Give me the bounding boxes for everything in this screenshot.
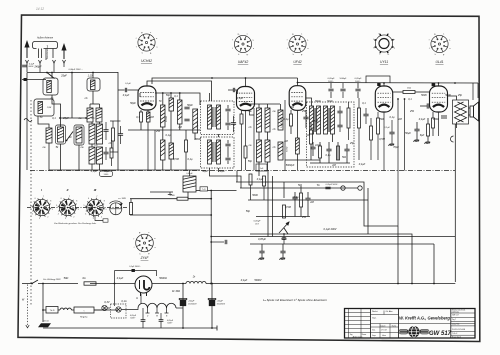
thermal resistor box xyxy=(46,307,58,314)
wire tube cathode drops to rail xyxy=(383,112,385,171)
coil box L2 xyxy=(87,78,100,91)
svg-text:5000: 5000 xyxy=(195,138,201,141)
AVC RC pair left of tube A xyxy=(112,128,115,141)
UCH42 cathode resistors xyxy=(140,112,143,122)
connector arc on return xyxy=(451,136,454,142)
svg-text:0,1µF 500V~: 0,1µF 500V~ xyxy=(129,266,141,268)
tube socket view UL41 xyxy=(431,35,448,52)
coil La2 tuned in box xyxy=(56,125,66,144)
svg-text:6A: 6A xyxy=(82,277,85,280)
svg-text:50pF: 50pF xyxy=(187,104,193,107)
B+ stub capacitor xyxy=(211,241,224,243)
svg-text:g₁: g₁ xyxy=(301,54,303,56)
svg-text:5: 5 xyxy=(56,205,57,207)
svg-text:s: s xyxy=(148,232,149,234)
svg-text:240pF: 240pF xyxy=(33,66,42,69)
IF-II primary coil xyxy=(208,140,212,164)
svg-text:0,1µF: 0,1µF xyxy=(257,178,264,181)
svg-text:500V: 500V xyxy=(281,238,287,241)
UAF42b screen resistor xyxy=(244,146,247,158)
svg-text:g₁: g₁ xyxy=(387,54,389,56)
svg-text:0,1µF: 0,1µF xyxy=(125,83,131,85)
svg-text:0,1µF: 0,1µF xyxy=(384,127,390,129)
mains fuse xyxy=(84,282,96,285)
tuning knob small xyxy=(110,201,123,215)
svg-text:500V~: 500V~ xyxy=(328,81,335,83)
svg-text:5000pF: 5000pF xyxy=(286,164,295,167)
right of IF: decoupling xyxy=(358,108,361,128)
wire oscillator rails xyxy=(128,129,200,131)
svg-text:GW 517: GW 517 xyxy=(452,315,459,317)
svg-text:g₂: g₂ xyxy=(434,33,436,35)
svg-text:150/200V: 150/200V xyxy=(188,304,197,306)
svg-text:5000pF: 5000pF xyxy=(340,78,348,80)
svg-text:Name: Name xyxy=(362,334,367,336)
svg-text:Änderungen: Änderungen xyxy=(353,335,363,338)
svg-text:25p: 25p xyxy=(457,94,463,97)
title block divider 3 xyxy=(450,309,452,339)
svg-text:4: 4 xyxy=(58,214,59,216)
svg-text:Gepr.: Gepr. xyxy=(372,318,377,320)
svg-text:25k: 25k xyxy=(301,110,307,113)
UL41 cathode resistor xyxy=(432,118,435,128)
wire power loop left vertical xyxy=(42,284,44,323)
title block outer box xyxy=(345,309,476,339)
wire antenna stems xyxy=(38,49,40,59)
svg-text:0,3: 0,3 xyxy=(136,116,140,119)
svg-text:2: 2 xyxy=(47,216,48,218)
rectifier tube UY11 xyxy=(375,86,392,112)
svg-text:II: II xyxy=(67,188,69,192)
wire AF section verticals xyxy=(267,170,269,237)
wire ballast to heater row xyxy=(140,294,142,304)
svg-text:0,05µF: 0,05µF xyxy=(355,78,363,80)
svg-text:0,1: 0,1 xyxy=(362,102,366,105)
wire B+ vertical to filter caps xyxy=(210,191,212,284)
svg-text:a₁: a₁ xyxy=(307,39,309,41)
svg-text:Gepr.: Gepr. xyxy=(372,334,377,337)
svg-text:0,1µF: 0,1µF xyxy=(237,97,244,100)
wire heater chain left xyxy=(43,309,46,311)
mains switch xyxy=(22,283,32,285)
switch III link wire xyxy=(95,216,103,221)
svg-text:s: s xyxy=(443,33,444,35)
svg-text:Regelw.: Regelw. xyxy=(80,317,88,319)
wire UAF42 top lead xyxy=(297,78,299,86)
svg-text:Außen-Antenne: Außen-Antenne xyxy=(36,37,54,40)
svg-text:g₂: g₂ xyxy=(139,232,141,234)
svg-text:UY11: UY11 xyxy=(380,60,388,64)
svg-text:24-51-57-006: 24-51-57-006 xyxy=(452,329,466,331)
UL41 bypass cap xyxy=(441,116,447,118)
svg-text:0,1µF: 0,1µF xyxy=(91,170,98,173)
svg-text:Harn: Harn xyxy=(382,334,386,337)
IF-III primary core lines xyxy=(314,108,315,132)
box T+R xyxy=(200,187,208,191)
svg-text:25pF: 25pF xyxy=(60,75,67,78)
ballast tube U xyxy=(135,276,152,296)
switch mechanical dotted link xyxy=(27,285,29,327)
UL41 top cap blob xyxy=(432,83,436,86)
svg-text:ca. 1MΩ: ca. 1MΩ xyxy=(118,198,126,200)
tube socket view UF42 xyxy=(289,35,306,52)
svg-text:50µF: 50µF xyxy=(405,132,411,135)
svg-text:0,5M: 0,5M xyxy=(285,206,291,209)
svg-text:UAF42: UAF42 xyxy=(238,60,249,64)
svg-text:0,5M: 0,5M xyxy=(312,120,318,123)
svg-text:17.9.47: 17.9.47 xyxy=(381,330,387,332)
wire UCH42 anode to top bus xyxy=(147,81,212,101)
wire dropper links xyxy=(187,192,189,199)
value labels middle section xyxy=(237,97,367,167)
svg-text:50pF: 50pF xyxy=(315,100,321,103)
wire tuning gang link xyxy=(60,117,86,119)
heater bump taps xyxy=(146,308,169,313)
svg-text:4: 4 xyxy=(85,214,86,216)
svg-text:6: 6 xyxy=(88,198,89,200)
coil Lb2 xyxy=(97,147,103,164)
svg-text:0,1µF: 0,1µF xyxy=(197,122,199,128)
terminal chevrons xyxy=(26,60,66,63)
oscillator coil tall xyxy=(193,109,198,133)
wire heater row to electrolytic rail xyxy=(176,307,183,309)
UL41 grid coupling cap xyxy=(427,103,429,108)
electrolytic cap blob a xyxy=(182,284,184,329)
capacitor to ground b xyxy=(280,251,285,253)
wire output return vertical xyxy=(454,124,456,282)
svg-text:25k: 25k xyxy=(301,216,307,219)
switch lever a xyxy=(67,132,74,141)
wire chevron drops xyxy=(39,63,41,73)
svg-text:1: 1 xyxy=(78,209,79,211)
svg-text:1: 1 xyxy=(106,209,107,211)
svg-text:Dr: Dr xyxy=(193,276,196,279)
coil La5 lower xyxy=(97,124,103,144)
junction dots left xyxy=(85,117,87,119)
svg-text:Werkst.: Werkst. xyxy=(372,310,379,313)
output transformer xyxy=(453,100,469,124)
IF-III trim caps xyxy=(337,111,342,113)
title block right cells xyxy=(451,313,475,335)
svg-text:Lₐ Spule mit Eisenkern Lᵇ S: Lₐ Spule mit Eisenkern Lᵇ Spule ohne Eis… xyxy=(263,298,327,302)
oscillator padder caps xyxy=(184,107,189,109)
svg-text:25k: 25k xyxy=(409,110,415,113)
svg-text:U: U xyxy=(136,297,138,300)
svg-text:Zwischensockel: Zwischensockel xyxy=(47,44,49,59)
svg-text:Name: Name xyxy=(392,325,397,327)
antenna arrow left xyxy=(25,42,29,59)
tube socket view UAF42 xyxy=(234,35,251,52)
wire lamp feed vertical xyxy=(114,284,116,307)
svg-text:10pF: 10pF xyxy=(315,144,321,147)
IF-I secondary coil xyxy=(217,105,221,129)
svg-text:Dr 30Ω: Dr 30Ω xyxy=(172,290,180,293)
trim caps right column xyxy=(103,130,108,132)
svg-text:0,1µF 200V: 0,1µF 200V xyxy=(324,228,337,231)
svg-text:1: 1 xyxy=(52,209,53,211)
svg-text:500V~: 500V~ xyxy=(355,81,362,83)
svg-text:UCH42: UCH42 xyxy=(141,59,152,63)
pickup jack TA2 xyxy=(358,186,362,190)
UAF42b grid cap xyxy=(233,88,234,92)
wire grid line down xyxy=(117,90,119,170)
svg-text:4: 4 xyxy=(32,214,33,216)
AF coupling caps cluster xyxy=(292,197,297,199)
svg-text:0,5M: 0,5M xyxy=(173,158,179,161)
svg-text:0,1A: 0,1A xyxy=(121,300,126,303)
svg-text:a₁: a₁ xyxy=(156,38,158,40)
svg-text:0,05µF 500V~: 0,05µF 500V~ xyxy=(326,184,339,186)
wire osc mid vertical xyxy=(154,130,156,170)
svg-text:GW 517: GW 517 xyxy=(429,331,452,337)
wire outer top bus xyxy=(152,78,298,84)
svg-text:0,1µ: 0,1µ xyxy=(294,196,299,199)
svg-text:90pF: 90pF xyxy=(104,170,110,173)
chassis ground bottom left xyxy=(38,323,51,327)
ground tap left xyxy=(150,191,173,193)
svg-text:0,1µ: 0,1µ xyxy=(166,134,171,137)
wire UAF42b top lead xyxy=(245,78,247,87)
svg-text:g₂: g₂ xyxy=(141,32,143,34)
svg-text:2: 2 xyxy=(73,216,74,218)
svg-text:g₁: g₁ xyxy=(246,54,248,56)
svg-text:+50µF: +50µF xyxy=(188,301,195,303)
svg-text:Zul. Abw.: Zul. Abw. xyxy=(386,310,394,313)
svg-text:6: 6 xyxy=(61,198,62,200)
wire left vertical down xyxy=(26,73,28,171)
vertical labels between tubes xyxy=(166,116,289,152)
tube socket view ZY4F xyxy=(136,234,154,252)
svg-text:W. Krefft A.G., Gevelsberg: W. Krefft A.G., Gevelsberg xyxy=(399,316,450,321)
svg-text:5: 5 xyxy=(30,205,31,207)
svg-text:50pF: 50pF xyxy=(327,100,333,103)
heater chain bump row xyxy=(138,303,176,308)
svg-text:Lieferung: Lieferung xyxy=(452,312,459,314)
IF transformer I dotted can xyxy=(201,101,235,135)
tube UAF42 envelope xyxy=(237,87,255,111)
svg-text:50 kΩ: 50 kΩ xyxy=(287,146,289,152)
svg-text:UL41: UL41 xyxy=(435,60,443,64)
IF-II trim caps xyxy=(225,144,230,146)
svg-text:g₁: g₁ xyxy=(148,253,150,255)
wire left section joins xyxy=(51,72,53,78)
wire top RF bus xyxy=(27,72,118,74)
svg-text:s: s xyxy=(247,33,248,35)
wire HT top bus right xyxy=(298,82,479,85)
coil La1 with core xyxy=(46,128,52,143)
coil La5 upper xyxy=(96,108,102,122)
svg-text:50p: 50p xyxy=(246,210,251,213)
svg-text:50pF: 50pF xyxy=(130,102,136,105)
svg-text:0,5M: 0,5M xyxy=(379,138,385,141)
capacitor 0,1uF 600V xyxy=(22,65,27,67)
switch contact mid xyxy=(284,228,288,234)
heater choke bumps a xyxy=(60,308,71,310)
band switch I xyxy=(32,198,51,217)
heater cap to rail a xyxy=(141,320,146,322)
small box 1=8 xyxy=(256,164,267,171)
second stack lower xyxy=(161,140,166,160)
resistor left drop xyxy=(130,203,133,215)
wire loop above UY11 xyxy=(366,76,390,83)
wave trap symbol xyxy=(24,119,32,122)
svg-text:0,1µF: 0,1µF xyxy=(241,279,248,282)
resistor 1kOhm top xyxy=(403,91,415,94)
dial lamp dashed box xyxy=(111,304,127,318)
svg-text:1,5M: 1,5M xyxy=(47,107,52,109)
wire section rails xyxy=(285,159,320,161)
pentode tube UAF42 xyxy=(289,86,306,111)
svg-text:8: 8 xyxy=(104,201,105,203)
wire speaker links xyxy=(469,107,471,109)
svg-text:0,1µ: 0,1µ xyxy=(284,118,289,121)
IF-II secondary coil xyxy=(217,140,221,164)
coil cluster lower xyxy=(257,140,262,162)
IF-I core lines xyxy=(213,107,216,127)
svg-text:25p: 25p xyxy=(349,142,355,145)
value labels left RF section xyxy=(33,66,225,174)
title block logo line xyxy=(399,323,476,325)
wire heater chain row xyxy=(94,309,102,311)
svg-text:g₁: g₁ xyxy=(443,54,445,56)
value labels power section xyxy=(64,277,262,304)
svg-text:5000: 5000 xyxy=(252,194,258,197)
svg-text:25pF: 25pF xyxy=(62,117,69,120)
svg-text:150Ω: 150Ω xyxy=(433,118,439,121)
svg-text:0,1µ: 0,1µ xyxy=(390,116,395,119)
volume potentiometer xyxy=(283,205,286,218)
tube socket view UCH42 xyxy=(138,34,155,51)
wire IF can links xyxy=(209,93,211,101)
UAF42b cathode resistor xyxy=(240,114,243,124)
svg-text:50p: 50p xyxy=(166,94,171,97)
below UY11 resistor xyxy=(377,118,380,134)
IF-III secondary core lines xyxy=(328,108,329,132)
title block revision grid xyxy=(345,309,371,339)
wire long return 2 xyxy=(211,236,455,238)
svg-text:8: 8 xyxy=(76,201,77,203)
svg-text:7: 7 xyxy=(69,196,70,198)
svg-text:7: 7 xyxy=(43,196,44,198)
svg-text:0,05µF: 0,05µF xyxy=(254,221,262,223)
svg-text:s: s xyxy=(301,33,302,35)
dial lamp 1 xyxy=(102,305,107,310)
wire mid rail b xyxy=(130,214,211,216)
resistor 10kOhm xyxy=(177,197,188,200)
dial lamp 2 xyxy=(116,307,121,312)
wire power loop bottom rail xyxy=(43,327,217,329)
svg-text:0,1µF: 0,1µF xyxy=(117,277,124,280)
antenna switch lever xyxy=(47,73,55,79)
IF-I primary coil xyxy=(208,105,212,129)
wire mains line to choke xyxy=(152,283,186,285)
svg-text:150/200V: 150/200V xyxy=(217,304,226,306)
svg-text:Von Rückseite gesehen. Der Dre: Von Rückseite gesehen. Der Drehung: link… xyxy=(54,222,97,225)
svg-text:Datum: Datum xyxy=(381,324,387,327)
capacitor stub extra xyxy=(340,89,345,91)
coil cluster AF42 grid upper xyxy=(257,108,262,132)
svg-text:Tag 7: Tag 7 xyxy=(452,319,456,321)
label box 5000 xyxy=(100,171,113,177)
svg-text:3: 3 xyxy=(65,218,66,220)
resistor right column xyxy=(110,148,113,158)
UL41 output caps to ground xyxy=(414,129,419,131)
svg-text:5000V: 5000V xyxy=(254,279,262,282)
title block divider 1 xyxy=(370,309,372,339)
wire return right vertical xyxy=(397,226,399,283)
svg-text:g₂: g₂ xyxy=(292,33,294,35)
logo globe xyxy=(399,327,429,338)
svg-text:7: 7 xyxy=(96,196,97,198)
svg-text:a₁: a₁ xyxy=(393,39,395,41)
svg-text:Geräte: Geräte xyxy=(43,320,49,323)
svg-text:a₁: a₁ xyxy=(449,39,451,41)
tube socket view UY11 xyxy=(375,34,394,53)
triode-hexode tube UCH42 xyxy=(138,86,156,110)
svg-text:500V~: 500V~ xyxy=(167,323,173,325)
svg-text:3: 3 xyxy=(93,218,94,220)
svg-text:g₁: g₁ xyxy=(150,53,152,55)
wire lamp feed upper xyxy=(114,271,116,284)
IF-I trim caps xyxy=(225,109,230,111)
svg-text:6: 6 xyxy=(35,198,36,200)
svg-text:Gez.: Gez. xyxy=(372,330,376,332)
capacitor on pot wire xyxy=(282,238,286,239)
svg-text:g₂: g₂ xyxy=(238,33,240,35)
svg-text:30pF: 30pF xyxy=(202,170,208,173)
resistor top row b xyxy=(263,176,266,186)
svg-text:Für Wellung 220V: Für Wellung 220V xyxy=(43,279,61,281)
svg-text:2: 2 xyxy=(101,216,102,218)
svg-text:TA: TA xyxy=(316,184,319,187)
svg-text:70pF: 70pF xyxy=(393,146,399,149)
coil box L1 xyxy=(43,78,58,95)
svg-text:Th.Ω: Th.Ω xyxy=(50,310,55,312)
IF-III damping resistor xyxy=(347,108,350,128)
wire IF-III leads xyxy=(306,98,312,106)
wire AVC feed verticals xyxy=(236,171,238,183)
resistor NSF xyxy=(74,307,94,313)
svg-text:0,08µF 250V~ ↓: 0,08µF 250V~ ↓ xyxy=(69,68,84,71)
wire antenna to RF line xyxy=(26,63,28,72)
svg-text:5: 5 xyxy=(84,205,85,207)
oscillator coil stack xyxy=(161,105,166,127)
title block divider 2 xyxy=(398,309,400,339)
svg-text:0,1µ: 0,1µ xyxy=(326,154,331,157)
IF-III primary coils xyxy=(310,106,314,134)
dropper box upper xyxy=(183,176,196,192)
svg-text:0,1: 0,1 xyxy=(174,95,178,98)
capacitor to ground a xyxy=(259,251,264,253)
wire B+ feed verticals xyxy=(397,99,399,226)
svg-text:3: 3 xyxy=(39,218,40,220)
svg-text:0,1µF: 0,1µF xyxy=(419,118,426,121)
coil La4 lower xyxy=(89,124,95,144)
capacitor bridge over ballast xyxy=(115,271,157,277)
svg-text:ZY4F: ZY4F xyxy=(140,256,150,260)
capacitor blob lower xyxy=(22,79,46,81)
wire lower stack xyxy=(162,130,164,140)
electrolytic cap blob b xyxy=(211,284,213,329)
svg-text:a₁: a₁ xyxy=(154,238,156,240)
band switch III xyxy=(85,198,104,217)
wire right edge vertical xyxy=(472,83,474,100)
pickup jack TA1 xyxy=(341,186,345,190)
svg-text:a₁: a₁ xyxy=(252,39,254,41)
wire AF cluster rail xyxy=(256,216,310,218)
wire long return 1 xyxy=(250,234,412,283)
IF-III secondary coils xyxy=(324,106,328,134)
